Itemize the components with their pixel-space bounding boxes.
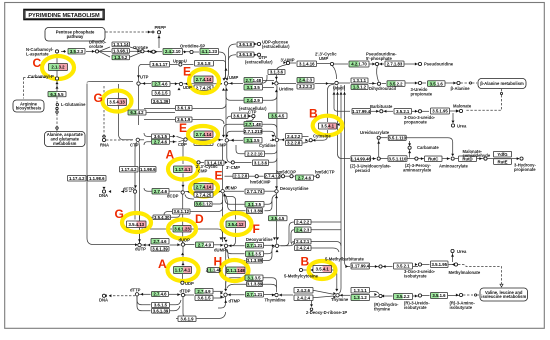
arrowhead	[178, 88, 181, 91]
svg-text:hm5dCMP: hm5dCMP	[250, 179, 271, 184]
arrowhead	[283, 61, 286, 64]
highlight E3	[190, 180, 218, 197]
arrowhead	[143, 244, 146, 247]
node deoxycytidine	[275, 190, 278, 193]
box 2.4.2.6	[294, 288, 313, 294]
svg-text:Cytosine: Cytosine	[313, 134, 331, 139]
node N-carbamoyl-L-aspartate	[55, 50, 58, 53]
svg-text:CTP: CTP	[248, 110, 257, 115]
svg-text:2.7.4.25: 2.7.4.25	[196, 86, 212, 91]
svg-text:E: E	[215, 169, 223, 183]
arrowhead	[276, 250, 279, 253]
arrowhead	[228, 293, 231, 296]
wire dTMP down	[218, 297, 226, 308]
wire 27412-c2	[281, 175, 282, 177]
wire dcmp-2128	[225, 175, 233, 177]
svg-text:3.6.1.8: 3.6.1.8	[239, 42, 253, 47]
wire rutD-msa	[477, 158, 484, 160]
svg-text:2.7.1.21: 2.7.1.21	[247, 243, 263, 248]
box 3.5.4.1 (B1)	[319, 123, 337, 129]
wire 2423 stack loop	[291, 230, 294, 243]
arrowhead	[182, 263, 185, 266]
highlight G2	[122, 213, 151, 232]
box 2.4.2.3 stack	[295, 227, 312, 233]
arrowhead	[345, 265, 348, 268]
arrowhead	[223, 194, 226, 197]
svg-text:CMP: CMP	[217, 143, 227, 148]
wire dCMP-dUMP rail	[222, 193, 224, 240]
wire mb-3521b	[383, 266, 393, 268]
svg-text:dCDP: dCDP	[167, 194, 179, 199]
svg-text:2.7.4.6: 2.7.4.6	[154, 82, 168, 87]
wire dCTP rail	[135, 142, 137, 190]
svg-text:β-Alanine metabolism: β-Alanine metabolism	[480, 81, 524, 86]
svg-text:3.5.1.110: 3.5.1.110	[389, 156, 407, 161]
open arrowhead	[500, 284, 503, 287]
box 3.1.3.5 dUMP	[246, 251, 264, 257]
box 1.1.98.6 upper	[140, 167, 157, 173]
svg-text:3.6.1.39: 3.6.1.39	[153, 99, 169, 104]
wire 6355-glutamine	[56, 97, 58, 103]
wire pentose to PRPP	[106, 31, 153, 33]
svg-text:CDP: CDP	[178, 142, 187, 147]
wire 36112-dCMP	[213, 200, 223, 204]
svg-text:isoleucine metabolism: isoleucine metabolism	[481, 294, 526, 299]
arrowhead	[220, 237, 223, 240]
wire UpppU-UTP rail	[139, 64, 150, 81]
wire 3522t-rui	[413, 295, 418, 297]
wire rail-thymine join	[339, 288, 341, 294]
arrowhead	[56, 86, 59, 89]
wire up-3516	[422, 82, 426, 84]
wire UMP-27148	[228, 82, 243, 84]
box 3.6.1.8 CTP ext	[232, 113, 249, 119]
arrowhead	[155, 50, 158, 53]
svg-text:3.5.4.1: 3.5.4.1	[316, 267, 330, 272]
box 3.1.4.16 UMP	[297, 61, 317, 67]
wire 3ump-3136	[277, 65, 287, 70]
wire valine in	[477, 294, 479, 296]
wire 2429-UMP	[226, 90, 244, 101]
wire 2128-circ	[249, 175, 255, 177]
map Pentose phosphate pathway	[45, 28, 105, 42]
box 3.1.3.6 CMP	[253, 160, 269, 166]
wire CDP row right	[170, 136, 184, 141]
svg-text:3.1.4.16: 3.1.4.16	[299, 62, 315, 67]
svg-text:3.1.3.5: 3.1.3.5	[247, 85, 261, 90]
arrowhead	[415, 263, 418, 266]
wire dhu-3522	[382, 83, 387, 85]
wire UTP-CTP via 6342	[138, 86, 140, 126]
svg-text:3.5.1.95: 3.5.1.95	[431, 262, 447, 267]
wire dTTP-DNA dash	[109, 295, 135, 297]
wire uridine-3136 up	[261, 75, 268, 83]
svg-text:dUDP: dUDP	[179, 238, 191, 243]
node UTP	[137, 82, 140, 85]
wire 31416-cyclic	[317, 63, 330, 65]
box 3.1.3.5 UMP row	[244, 85, 263, 91]
svg-text:2.7.4.6: 2.7.4.6	[153, 292, 167, 297]
arrowhead	[382, 295, 385, 298]
wire ctpext	[246, 118, 253, 121]
wire uracil-barbiturate	[334, 92, 350, 111]
box 1.3.1.2 thymine	[351, 295, 370, 301]
arrowhead	[137, 50, 140, 53]
arrowhead	[220, 244, 223, 247]
node hm5dCMP-left	[255, 175, 258, 178]
box 6.3.4.2	[128, 110, 146, 115]
node dTTP	[135, 293, 138, 296]
box 2.7.1.21 deoxyuridine	[246, 243, 264, 249]
wire 27148-uridine	[263, 80, 274, 82]
svg-text:2.4.2.2: 2.4.2.2	[296, 220, 310, 225]
arrowhead	[179, 63, 182, 66]
highlight E1	[189, 69, 219, 93]
node DNA1	[102, 190, 105, 193]
wire 3615-dTDP2	[170, 300, 181, 311]
arrowhead	[456, 294, 459, 297]
wire uracil-1311	[339, 82, 351, 84]
node UDP lower	[181, 281, 184, 284]
node dUMP	[224, 244, 227, 247]
svg-text:2.4.2.2: 2.4.2.2	[287, 134, 301, 139]
svg-text:RutC: RutC	[428, 156, 438, 161]
wire mm-valine dash	[458, 265, 502, 286]
wire 3619 row2	[144, 119, 175, 121]
node R-3-aminoisobutyrate	[459, 293, 462, 296]
box 3.1.4.16 CMP	[205, 160, 224, 165]
arrowhead	[451, 154, 454, 157]
box 1.17.4.1 (A2)	[174, 267, 192, 274]
node uracil	[335, 81, 338, 84]
box 3.6.1.8 to UDP-glucose	[237, 42, 254, 47]
wire CTP right short	[140, 139, 144, 141]
box 1.17.99.4 barbiturate	[352, 109, 371, 115]
svg-text:1.17.99.4: 1.17.99.4	[352, 109, 371, 114]
node mid1	[56, 107, 58, 109]
arrowhead	[272, 135, 275, 138]
arrowhead	[340, 92, 343, 95]
wire dUMP-27121	[228, 245, 245, 247]
svg-text:1.3.1.1: 1.3.1.1	[354, 288, 368, 293]
arrowhead	[134, 185, 137, 188]
svg-text:1.3.1.2: 1.3.1.2	[353, 85, 367, 90]
box 3.5.4.30	[153, 215, 171, 220]
wire 1311t-dht	[370, 292, 379, 295]
wire uracil fan stubs	[334, 85, 345, 92]
wire 2746h-hm5dctp	[314, 175, 316, 177]
svg-text:PYRIMIDINE METABOLISM: PYRIMIDINE METABOLISM	[28, 13, 100, 19]
svg-text:2-Deoxy-D-ribose-1P: 2-Deoxy-D-ribose-1P	[306, 310, 347, 315]
node CTP	[136, 138, 139, 141]
wire rai-valine dash	[463, 294, 473, 296]
wire 3523-dho	[86, 50, 95, 52]
box RutE	[494, 159, 512, 165]
svg-text:isobutyrate: isobutyrate	[450, 305, 473, 310]
node dUTP	[138, 243, 141, 246]
svg-text:1.17.99.4: 1.17.99.4	[351, 264, 370, 269]
wire msa-rutE	[488, 158, 520, 160]
wire 3135t right	[263, 278, 277, 292]
svg-text:2.7.1.83: 2.7.1.83	[387, 62, 403, 67]
svg-text:3.6.1.8: 3.6.1.8	[239, 52, 253, 57]
box 3.6.1.39 UTP row	[152, 99, 170, 104]
svg-text:(extracellular): (extracellular)	[262, 44, 290, 49]
node CMP	[225, 139, 228, 142]
wire 2424-thymine2	[313, 296, 334, 298]
box 2.7.4.25 under E1	[194, 85, 213, 91]
wire CMP-3CMP	[227, 142, 231, 162]
wire dCDP-dUDP rail	[182, 194, 184, 242]
wire 3516t-rai	[448, 295, 459, 297]
svg-text:2.1.1.148: 2.1.1.148	[227, 268, 246, 273]
svg-text:1.3.98.1: 1.3.98.1	[113, 49, 129, 54]
node DNA2	[102, 294, 105, 297]
box 2.2.2.10	[245, 151, 265, 157]
wire dUTP-2746	[142, 244, 151, 246]
box 3.1.3.6	[268, 70, 285, 75]
svg-text:5-Methylcytosine: 5-Methylcytosine	[284, 274, 319, 279]
svg-text:1.17.4.2: 1.17.4.2	[121, 167, 137, 172]
box 2.4.2.2 stack	[295, 220, 312, 225]
node to valine map	[475, 294, 477, 296]
arrowhead	[447, 157, 450, 160]
box 2.7.4.9 dUDP	[196, 242, 214, 248]
arrowhead	[479, 157, 482, 160]
arrowhead	[275, 186, 278, 189]
node barbiturate	[380, 110, 383, 113]
wire malonate-urea	[452, 113, 454, 123]
svg-text:2.2.2.10: 2.2.2.10	[247, 151, 263, 156]
wire dUTP rail	[138, 142, 141, 243]
svg-text:2.7.4.14: 2.7.4.14	[196, 77, 212, 82]
node hm5dCMP	[281, 175, 284, 178]
arrowhead	[224, 289, 227, 292]
node cytidine	[275, 138, 278, 141]
svg-text:B: B	[301, 255, 310, 269]
wire dCDP-3.6.1.12	[185, 194, 194, 199]
node UTP ext	[257, 53, 260, 56]
node UpppU	[179, 63, 182, 66]
wire 3618 rail joins	[229, 44, 237, 60]
node 2-deoxy-D-ribose-1P	[310, 308, 313, 311]
node to beta-ala map	[469, 82, 471, 84]
box 2.1.2.8	[233, 174, 249, 179]
node hm5dCDP	[290, 175, 293, 178]
node beta-ala link	[500, 92, 502, 94]
highlight C	[42, 56, 74, 79]
box 2.7.4.6 hm5dCDP	[296, 175, 314, 180]
svg-text:3.5.4.30: 3.5.4.30	[154, 215, 170, 220]
box 3.5.4.12 (F)	[226, 221, 246, 228]
arrowhead	[275, 90, 278, 93]
wire 3618b-circ	[255, 54, 259, 56]
wire uridine-2423	[279, 82, 297, 84]
arrowhead	[103, 187, 106, 190]
wire RNA-CTP dashed	[106, 139, 134, 141]
wire 3136-uridine v	[275, 75, 277, 81]
wire 3135du right	[263, 250, 272, 261]
node urea2	[451, 249, 454, 252]
node pseudouridine	[418, 62, 421, 65]
wire CMP-3135row	[229, 139, 244, 141]
wire A1-dCDP	[182, 174, 184, 191]
arrowhead	[282, 138, 285, 141]
box RutD	[459, 156, 477, 162]
svg-text:3.5.4.1: 3.5.4.1	[321, 124, 335, 129]
svg-text:3.1.3.89: 3.1.3.89	[247, 258, 263, 263]
wire 2746-dCDP	[170, 190, 181, 192]
box 2.1.3.2 (C highlight)	[49, 64, 68, 71]
wire dCTP-DNA dash	[121, 191, 133, 193]
node carbamate	[408, 146, 411, 149]
wire oxo-35195	[422, 110, 429, 112]
svg-text:3.5.1.6: 3.5.1.6	[430, 81, 444, 86]
svg-text:4.2.1.70: 4.2.1.70	[351, 62, 367, 67]
node 3-ureidopropionate	[418, 81, 421, 84]
node 3-oxo-3-ureidopropanoate	[418, 110, 421, 113]
wire UTP-2746	[141, 83, 152, 85]
box 1.3.98.1	[112, 49, 130, 54]
box 3.5.2.1 methylbarb	[394, 263, 413, 269]
wire amino-rutD	[455, 158, 458, 160]
highlight B1	[313, 116, 343, 136]
box 3.5.1.6 thymine	[431, 293, 448, 299]
arrowhead	[137, 75, 140, 78]
node UDP-glucose ext	[257, 42, 260, 45]
wire glu-mid	[56, 114, 58, 127]
arrowhead	[415, 295, 418, 298]
box 3.5.1.6	[428, 81, 446, 87]
svg-text:3.5.4.5: 3.5.4.5	[271, 114, 285, 119]
svg-text:3.2.2.3: 3.2.2.3	[299, 84, 313, 89]
svg-text:UDP: UDP	[183, 85, 192, 90]
node pseudouridine-5P	[375, 62, 378, 65]
svg-text:thymine: thymine	[374, 306, 391, 311]
wire 3135dc left	[224, 194, 246, 211]
wire 13114-orotate	[130, 47, 141, 51]
wire 2746-dTDP	[169, 293, 181, 295]
wire CDP row left stubs	[144, 133, 151, 145]
highlight F	[222, 213, 252, 235]
svg-text:2.7.1.48: 2.7.1.48	[245, 78, 261, 83]
node dCMP	[221, 190, 224, 193]
box 3.6.1.39 dTTP2	[152, 309, 170, 314]
node deoxyuridine	[275, 244, 278, 247]
arrowhead	[377, 141, 380, 144]
wire CDP-CMP line	[188, 139, 223, 141]
svg-text:3.1.3.89: 3.1.3.89	[247, 282, 263, 287]
wire du join	[272, 247, 275, 251]
highlight E2	[188, 126, 218, 143]
arrowhead	[310, 304, 313, 307]
box 3.6.1.17	[150, 62, 170, 68]
svg-text:3.5.1.6: 3.5.1.6	[432, 293, 446, 298]
wire 2749-dTMP	[214, 290, 224, 292]
node 5-methylbarbiturate	[379, 265, 382, 268]
wire 27148b right loop	[263, 124, 277, 137]
box RutC	[425, 156, 443, 162]
node orotate	[141, 50, 144, 53]
svg-text:Uridine: Uridine	[279, 87, 294, 92]
arrowhead	[225, 161, 228, 164]
box 2.7.4.6 dCDP	[152, 189, 169, 195]
wire dCMP-27174	[225, 190, 245, 192]
box 2.7.4.25 under E2	[194, 141, 213, 146]
wire dctp-G2-dutp	[139, 213, 141, 243]
box 1.3.1.1	[351, 78, 368, 83]
arrowhead	[109, 190, 112, 193]
node dihydroorotate	[95, 50, 98, 53]
wire 3618a-circ	[255, 43, 259, 45]
arrowhead	[143, 82, 146, 85]
arrowhead	[421, 157, 424, 160]
arrowhead	[182, 185, 185, 188]
svg-text:3.5.2.2: 3.5.2.2	[396, 294, 410, 299]
node beta-alanine	[457, 81, 460, 84]
wire 2422-cytosine	[303, 136, 309, 138]
arrowhead	[184, 294, 187, 297]
wire carbamoylP-arginine dashed	[24, 78, 54, 99]
box 3.5.2.3	[68, 49, 85, 55]
box 4.1.1.23	[200, 49, 219, 55]
box 2.4.2.1 stack	[295, 239, 312, 244]
wire dho-1352	[99, 51, 110, 57]
svg-text:3.5.4.13: 3.5.4.13	[128, 222, 144, 227]
wire ncarb-carbP	[56, 54, 58, 77]
box 2.7.1.83	[385, 61, 404, 67]
node 5-methylcytosine	[299, 268, 302, 271]
box 1.1.98.6 left	[88, 176, 107, 182]
box 3.1.3.89 dUMP	[247, 258, 263, 263]
box 3.6.1.8 upper	[195, 61, 214, 67]
svg-text:dUMP: dUMP	[214, 248, 226, 253]
wire dUDP-2749	[186, 244, 195, 246]
svg-text:3.5.2.1: 3.5.2.1	[396, 264, 410, 269]
arrowhead	[415, 82, 418, 85]
wire 3618c-circ	[249, 115, 253, 117]
node dihydrothymine	[379, 294, 382, 297]
arrowhead	[376, 110, 379, 113]
box 3.1.3.5 dTMP	[245, 275, 263, 281]
box 2.7.4.14 (E1)	[194, 76, 213, 83]
arrowhead	[182, 242, 185, 245]
arrowhead	[384, 110, 387, 113]
wire 1312t-dht	[370, 296, 379, 299]
svg-text:Thymidine: Thymidine	[265, 298, 287, 303]
arrowhead	[63, 50, 66, 53]
arrowhead	[181, 253, 184, 256]
arrowhead	[220, 295, 223, 298]
svg-text:2.7.4.6: 2.7.4.6	[154, 139, 168, 144]
wire UDP rail to dUTP	[87, 84, 136, 245]
wire 3619b	[193, 120, 225, 125]
box 1.3.1.1 thymine	[351, 288, 370, 294]
arrowhead	[517, 157, 520, 160]
svg-text:3.5.2.3: 3.5.2.3	[70, 49, 84, 54]
svg-text:3.1.3.6: 3.1.3.6	[270, 70, 284, 75]
box 2.7.4.6 CDP row	[152, 139, 170, 144]
arrowhead	[375, 265, 378, 268]
wire 2421 stub	[292, 242, 295, 245]
box 2.7.4.12	[264, 174, 280, 179]
wire 1352-orotate	[130, 53, 141, 58]
wire map down	[501, 89, 503, 93]
wire dTMP-27121	[228, 294, 245, 296]
svg-text:2.4.2.3: 2.4.2.3	[296, 227, 310, 232]
svg-text:3.5.1.110: 3.5.1.110	[388, 136, 406, 141]
svg-text:3.6.1.12: 3.6.1.12	[195, 202, 211, 207]
